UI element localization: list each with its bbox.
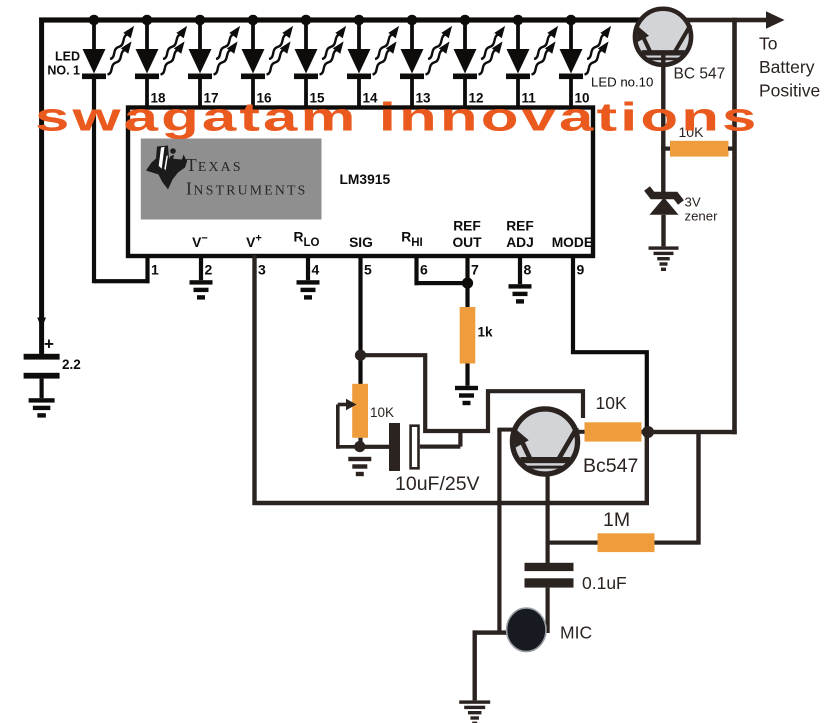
pin number 18 (LED LED2 cathode to IC) [151,91,167,106]
pin number 12 (LED LED8 cathode to IC) [469,91,484,106]
svg-text:V−: V− [192,233,208,251]
pin label REF OUT (pin 7) [452,219,482,251]
pin 1 stub [145,255,159,283]
svg-text:swagatam innovations: swagatam innovations [35,95,760,140]
svg-text:LED no.10: LED no.10 [591,75,653,90]
wire: SIG to collector of Q2 [361,355,584,431]
pin label REF ADJ (pin 8) [506,219,534,251]
pin 6 stub [420,262,428,278]
preset P1 10K [336,384,368,449]
svg-text:0.1uF: 0.1uF [582,573,627,593]
LED LED3 [188,15,244,108]
ground under R2 [455,386,478,405]
arrow to battery positive [766,11,785,29]
svg-text:5: 5 [364,262,372,278]
svg-text:RHI: RHI [401,230,422,250]
label 0.1uF [582,573,627,593]
svg-text:MODE: MODE [552,235,593,250]
svg-text:RLO: RLO [294,230,320,250]
svg-text:ADJ: ADJ [506,235,534,250]
pin label RLO (pin 4) [294,230,320,250]
LED LED8 [453,15,509,108]
wire: node branch down to 1M [696,432,700,545]
pin label V- (pin 2) [192,233,208,251]
svg-text:3: 3 [258,262,266,278]
wire: pin 7 down [465,255,469,308]
LED LED2 [135,15,191,108]
svg-text:6: 6 [420,262,428,278]
TI logo text [186,155,308,199]
resistor R4 1M (base bias) [548,533,701,552]
svg-text:BC 547: BC 547 [674,66,726,83]
svg-text:1: 1 [151,262,159,278]
pin 9 stub [577,262,585,278]
LED LED6 [347,15,403,108]
svg-text:8: 8 [524,262,532,278]
pin number 15 (LED LED5 cathode to IC) [310,91,326,106]
LED LED9 [506,15,562,108]
label: To Battery Positive [759,34,820,101]
svg-text:10K: 10K [596,393,627,413]
pin 3 stub [258,262,266,278]
pin number 13 (LED LED7 cathode to IC) [416,91,432,106]
LED LED4 [241,15,297,108]
LED LED7 [400,15,456,108]
svg-text:NO. 1: NO. 1 [47,64,80,78]
svg-text:2: 2 [205,262,213,278]
svg-text:LED: LED [55,50,80,64]
svg-text:Positive: Positive [759,81,820,101]
label 10uF/25V [395,473,480,495]
svg-text:10uF/25V: 10uF/25V [395,473,480,495]
svg-text:7: 7 [471,262,479,278]
Texas Instruments logo box [141,139,322,220]
pin label MODE (pin 9) [552,235,593,250]
current arrow on left wire [37,318,46,329]
resistor R2 1k [460,307,476,386]
ground at pin 4 [297,280,320,299]
wire: mic node [473,630,508,700]
svg-text:3V: 3V [685,195,701,210]
label LED no.10 [591,75,653,90]
ground under C1 [29,398,55,417]
node: preset bottom junction [354,441,365,452]
svg-text:OUT: OUT [452,235,482,250]
svg-text:MIC: MIC [560,623,592,643]
capacitor C3 0.1uF [525,563,574,633]
ground at pin 2 [190,280,213,299]
svg-text:9: 9 [577,262,585,278]
resistor R3 10K (collector to supply) [578,422,648,441]
pin label RHI (pin 6) [401,230,422,250]
pin label SIG (pin 5) [349,235,373,250]
zener diode D1 3V [647,189,681,247]
wire: left rail down to capacitor [39,18,44,355]
pin number 10 (LED LED10 cathode to IC) [575,91,590,106]
svg-text:REF: REF [506,219,534,234]
label BC 547 [674,66,726,83]
wire: Q2 base down [546,461,550,563]
pin 8 stub [518,255,532,284]
node: supply junction [642,426,654,438]
pin 2 stub [199,255,213,280]
pin number 16 (LED LED4 cathode to IC) [257,91,273,106]
svg-text:+: + [44,335,54,354]
LED LED5 [294,15,350,108]
svg-text:To: To [759,34,777,54]
label 3V zener [685,195,719,224]
node: pin6/pin7 junction [462,278,473,289]
LED LED1 [82,15,138,284]
transistor Q1 BC 547 (emitter follower) [635,9,691,65]
svg-text:V+: V+ [246,233,262,251]
svg-text:LM3915: LM3915 [340,172,391,187]
label LM3915 [340,172,391,187]
pin 7 stub [471,262,479,278]
wire: right battery rail [732,18,737,435]
label 10K (R3) [596,393,627,413]
pin 4 stub [306,255,320,280]
pin 5 stub [364,262,372,278]
svg-text:REF: REF [453,219,481,234]
svg-text:Battery: Battery [759,57,815,77]
wire: Q2 emitter to mic node [497,428,513,635]
ground under mic [459,700,490,723]
wire: Q1 base lead down [661,55,665,194]
svg-text:Bc547: Bc547 [583,455,638,477]
TI logo mark (Texas map + ti) [146,146,187,190]
ground under zener [649,246,679,271]
svg-text:2.2: 2.2 [62,357,81,372]
wire: pin 3 V+ to supply node [255,255,647,503]
label 10K (R1) [679,124,705,140]
ground under preset [348,457,371,476]
wire: pin 6 to pin 7 node [414,255,467,285]
label LED NO. 1 [47,50,80,78]
svg-text:1k: 1k [478,325,494,340]
svg-text:zener: zener [685,209,719,224]
wire: node to battery rail [648,430,737,434]
microphone MIC [507,608,546,652]
pin number 17 (LED LED3 cathode to IC) [204,91,219,106]
resistor R1 10K [661,141,737,157]
wire: pin 9 MODE to supply node [573,255,647,430]
svg-text:SIG: SIG [349,235,373,250]
pin label V+ (pin 3) [246,233,262,251]
node on SIG line [355,350,366,361]
capacitor C2 10uF/25V [389,423,463,471]
wire: preset node to C2 [360,445,389,449]
label 10K (preset) [370,405,394,420]
wire: top LED supply rail [39,17,772,22]
op-amp/IC U1 LM3915 body [128,108,593,257]
svg-text:1M: 1M [603,509,630,531]
svg-text:4: 4 [312,262,320,278]
ground at pin 8 [509,284,532,303]
transistor Q2 Bc547 [512,409,577,474]
label 1M [603,509,630,531]
watermark swagatam innovations [35,95,760,140]
pin number 14 (LED LED6 cathode to IC) [363,91,379,106]
svg-text:10K: 10K [370,405,394,420]
label 1k [478,325,494,340]
LED LED10 [559,15,615,108]
label Bc547 [583,455,638,477]
pin number 11 (LED LED9 cathode to IC) [522,91,537,106]
label MIC [560,623,592,643]
wire: LED1 cathode to pin 1 [94,279,150,283]
wire: pin 5 down to preset [358,255,362,384]
capacitor C1 2.2 (polarized) [24,335,81,399]
